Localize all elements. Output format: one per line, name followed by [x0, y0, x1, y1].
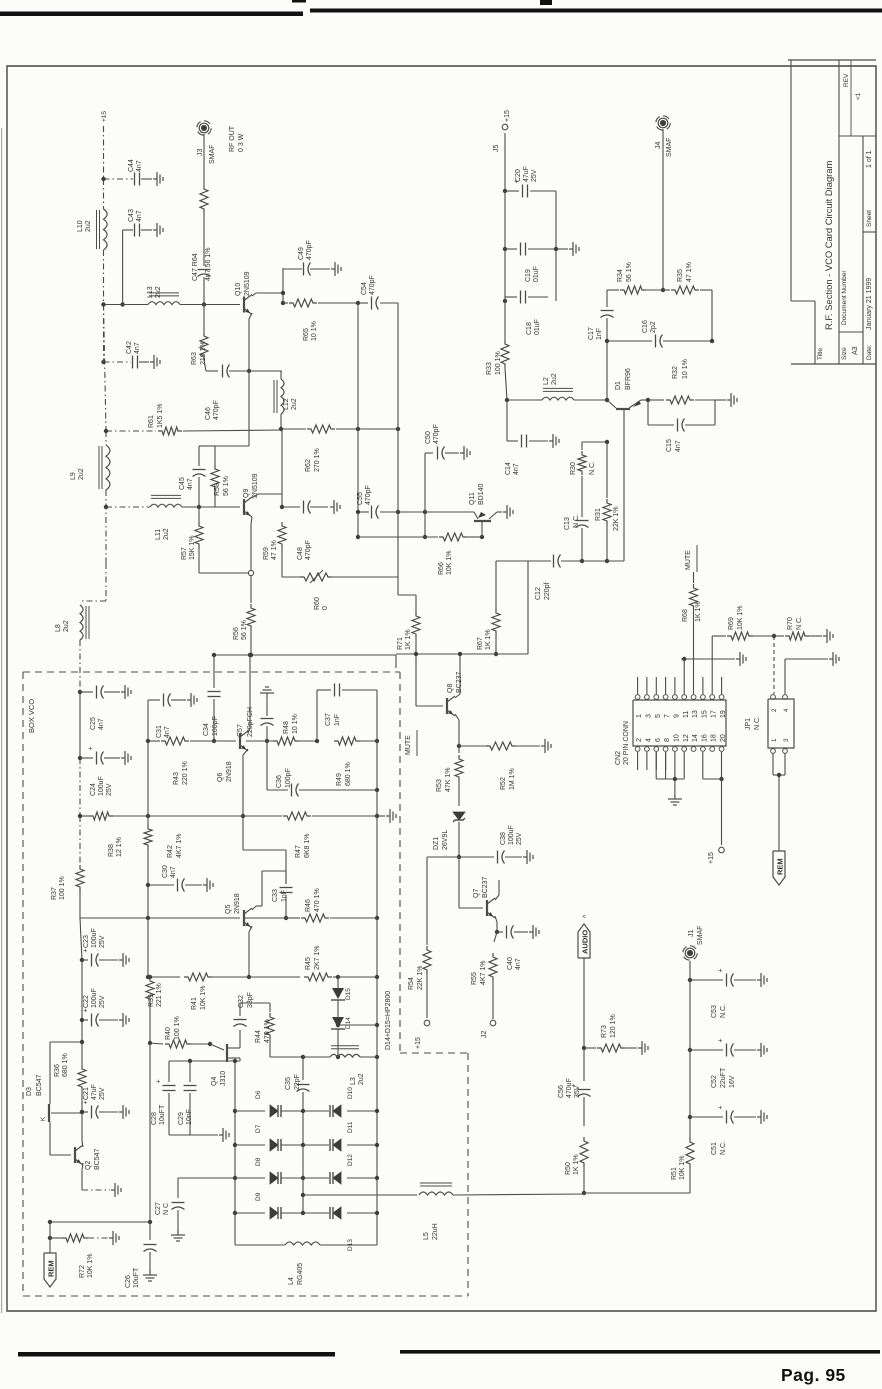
junction [375, 788, 379, 792]
svg-text:BFR96: BFR96 [625, 368, 632, 390]
net flag AUDIO [578, 924, 590, 958]
junction [284, 916, 288, 920]
junction [212, 739, 216, 743]
wire [489, 512, 497, 519]
wire [49, 1238, 51, 1253]
svg-text:1M 1%: 1M 1% [509, 768, 516, 790]
svg-text:A3: A3 [852, 346, 859, 355]
wire [104, 361, 132, 363]
wire [332, 576, 398, 578]
resistor R68 [690, 584, 698, 610]
varactor diode D7 [270, 1139, 278, 1151]
svg-text:4n7: 4n7 [515, 958, 522, 970]
svg-text:2: 2 [636, 738, 643, 742]
svg-text:D1: D1 [615, 381, 622, 390]
wire [504, 191, 506, 301]
resistor R34 [620, 286, 646, 294]
capacitor C14 [521, 435, 523, 448]
zener diode DZ1 [453, 812, 465, 820]
svg-text:6: 6 [655, 738, 662, 742]
wire [198, 548, 200, 573]
wire [81, 960, 83, 1020]
wire [772, 753, 774, 775]
wire [695, 399, 715, 401]
svg-text:4: 4 [783, 708, 790, 712]
wire [149, 1043, 151, 1222]
svg-text:REM: REM [776, 858, 785, 875]
ground [153, 229, 157, 231]
svg-text:C15: C15 [666, 439, 673, 452]
wire [712, 635, 726, 637]
wire [280, 371, 282, 379]
wire [689, 1168, 691, 1193]
svg-text:D15: D15 [345, 988, 352, 1000]
capacitor C28 [163, 1085, 176, 1087]
wire [467, 536, 482, 538]
svg-text:R39: R39 [148, 994, 155, 1007]
resistor R71 [412, 612, 420, 638]
svg-text:25V: 25V [99, 1087, 106, 1100]
wire [397, 577, 399, 595]
wire [79, 640, 81, 692]
varactor diode D8 [270, 1172, 278, 1184]
svg-text:Q9: Q9 [243, 489, 250, 498]
wire [50, 1041, 82, 1043]
wire [555, 191, 557, 301]
wire [317, 689, 331, 691]
svg-text:100pF: 100pF [212, 716, 219, 736]
wire [214, 654, 396, 656]
svg-text:2u2: 2u2 [85, 220, 92, 232]
resistor R39 [146, 977, 154, 1003]
svg-text:4n7: 4n7 [134, 342, 141, 354]
wire [734, 979, 756, 981]
wire [303, 1110, 329, 1112]
svg-text:L3: L3 [350, 1077, 357, 1085]
svg-text:R50: R50 [565, 1162, 572, 1175]
capacitor C42 [132, 356, 134, 369]
wire [310, 570, 323, 583]
wire [380, 302, 398, 304]
junction [375, 1176, 379, 1180]
pin [701, 695, 706, 700]
wire [690, 1049, 723, 1051]
capacitor C30 [177, 879, 179, 892]
svg-text:JP1: JP1 [745, 718, 752, 730]
wire [105, 563, 107, 601]
svg-text:C16: C16 [642, 320, 649, 333]
wire [458, 781, 460, 806]
junction [104, 429, 108, 433]
wire [380, 511, 398, 513]
wire [505, 368, 507, 400]
svg-text:C27: C27 [155, 1202, 162, 1215]
svg-text:R57: R57 [181, 547, 188, 560]
transistor D3 bar [48, 1104, 50, 1122]
ground [727, 399, 731, 401]
inductor L10 [104, 209, 108, 250]
svg-text:220 1%: 220 1% [182, 761, 189, 785]
svg-text:R59: R59 [263, 547, 270, 560]
svg-text:SMAF: SMAF [209, 145, 216, 164]
svg-text:C50: C50 [425, 431, 432, 444]
svg-text:4K7 1%: 4K7 1% [480, 960, 487, 985]
svg-text:2: 2 [771, 708, 778, 712]
wire [113, 815, 148, 817]
wire [357, 303, 359, 429]
svg-text:D11: D11 [347, 1121, 354, 1133]
ground [549, 440, 553, 442]
svg-text:L11: L11 [155, 529, 162, 540]
resistor R43 [161, 737, 189, 745]
svg-text:4: 4 [645, 738, 652, 742]
wire [147, 918, 149, 977]
svg-text:C38: C38 [500, 832, 507, 845]
wire [248, 371, 250, 446]
wire [213, 699, 215, 741]
svg-text:4n7: 4n7 [187, 478, 194, 490]
svg-text:R52: R52 [500, 777, 507, 790]
ground [674, 795, 676, 799]
wire [426, 857, 428, 945]
wire [283, 302, 288, 304]
wire [199, 506, 240, 508]
svg-text:C46: C46 [205, 407, 212, 420]
resistor R42 [144, 825, 152, 849]
wire [79, 891, 81, 918]
svg-text:D14: D14 [345, 1017, 352, 1029]
wire [103, 305, 105, 363]
wire [360, 1056, 377, 1058]
wire [50, 1221, 150, 1223]
wire [281, 1144, 303, 1146]
svg-text:0: 0 [322, 606, 329, 610]
wire [714, 400, 716, 425]
junction [301, 1055, 305, 1059]
svg-text:REV: REV [843, 73, 850, 87]
wire [584, 1192, 690, 1194]
junction [101, 302, 105, 306]
wire [303, 1194, 417, 1196]
wire [445, 452, 459, 454]
wire [333, 976, 338, 978]
varactor diode D10 [333, 1105, 341, 1117]
junction [646, 398, 650, 402]
terminal +15 [719, 847, 725, 853]
wire [99, 1019, 118, 1021]
junction [247, 369, 251, 373]
connector J4 SMAF [658, 118, 668, 128]
ground [736, 658, 740, 660]
transistor Q6 [239, 733, 241, 749]
svg-text:26V9L: 26V9L [442, 830, 449, 850]
wire [252, 494, 258, 498]
wire [581, 528, 583, 561]
wire [266, 741, 268, 790]
wire [281, 428, 306, 430]
junction [80, 1040, 84, 1044]
svg-text:210 1%: 210 1% [200, 341, 207, 365]
junction [301, 1176, 305, 1180]
junction [78, 756, 82, 760]
resistor R36 [78, 1065, 86, 1091]
wire [690, 1116, 723, 1118]
wire [79, 758, 81, 816]
transistor Q9 [243, 499, 245, 515]
junction [582, 1046, 586, 1050]
wire [458, 741, 460, 753]
wire [397, 303, 399, 512]
svg-text:C33: C33 [272, 889, 279, 902]
wire [104, 304, 149, 306]
capacitor C53 [726, 974, 728, 987]
wire [282, 576, 300, 578]
svg-text:R32: R32 [672, 366, 679, 379]
ground [119, 1111, 123, 1113]
resistor R61 [158, 427, 182, 435]
junction [146, 883, 150, 887]
ground [153, 178, 157, 180]
wire [785, 658, 828, 660]
wire [258, 493, 282, 495]
capacitor C51 [726, 1111, 728, 1124]
capacitor C54 [371, 297, 373, 310]
wire [376, 977, 378, 1057]
wire [104, 757, 120, 759]
wire [150, 1043, 163, 1044]
varactor diode D13 [333, 1207, 341, 1219]
ground [203, 884, 207, 886]
wire [674, 779, 676, 796]
junction [48, 1236, 52, 1240]
svg-text:L8: L8 [55, 624, 62, 632]
inductor L13 [148, 302, 180, 305]
svg-text:47uF: 47uF [523, 166, 530, 182]
ground [541, 745, 545, 747]
wire [655, 677, 657, 694]
svg-text:C36: C36 [276, 775, 283, 788]
wire [702, 677, 704, 694]
svg-text:+: + [718, 968, 725, 972]
wire [505, 190, 519, 192]
wire [198, 507, 200, 522]
wire [227, 1057, 240, 1059]
svg-text:N C: N C [163, 1203, 170, 1215]
svg-text:+: + [88, 746, 95, 750]
wire [377, 815, 385, 817]
svg-text:2u2: 2u2 [63, 620, 70, 632]
svg-text:R37: R37 [51, 887, 58, 900]
wire [312, 815, 377, 817]
svg-text:Document Number: Document Number [841, 270, 848, 325]
junction [356, 301, 360, 305]
svg-text:25V: 25V [99, 995, 106, 1008]
inductor L11 [150, 504, 182, 507]
svg-text:R73: R73 [601, 1025, 608, 1038]
wire [528, 296, 548, 298]
junction [301, 1143, 305, 1147]
svg-text:R71: R71 [397, 637, 404, 650]
svg-text:K: K [41, 1117, 47, 1121]
resistor R58 [211, 465, 219, 491]
wire [514, 931, 528, 933]
capacitor C26 [144, 1244, 157, 1246]
junction [208, 1042, 212, 1046]
svg-text:C22: C22 [83, 995, 90, 1008]
wire [249, 313, 252, 319]
svg-text:C40: C40 [507, 957, 514, 970]
wire [584, 1047, 596, 1049]
wire [648, 424, 674, 426]
junction [375, 916, 379, 920]
wire [49, 1222, 51, 1238]
ground [109, 1237, 113, 1239]
junction [48, 1220, 52, 1224]
wire [248, 319, 250, 371]
junction [80, 1110, 84, 1114]
svg-text:2u2: 2u2 [291, 398, 298, 410]
transistor Q10 [243, 297, 245, 313]
wire [169, 1134, 218, 1136]
capacitor C13 [576, 520, 589, 522]
wire [773, 774, 785, 776]
svg-text:15K 1%: 15K 1% [189, 535, 196, 560]
svg-text:10uFT: 10uFT [133, 1267, 140, 1288]
resistor R41 [184, 973, 212, 981]
wire [506, 400, 508, 441]
pin [710, 747, 715, 752]
resistor R51 [686, 1138, 694, 1168]
svg-text:12: 12 [683, 734, 690, 742]
wire [529, 440, 548, 442]
junction [688, 1115, 692, 1119]
svg-text:270 1%: 270 1% [314, 448, 321, 472]
wire [177, 1210, 179, 1232]
svg-text:25V: 25V [516, 832, 523, 845]
junction [202, 302, 206, 306]
svg-text:C55: C55 [357, 492, 364, 505]
wire [574, 399, 607, 401]
inductor L9 [106, 445, 110, 490]
svg-text:2u2: 2u2 [551, 373, 558, 385]
svg-text:25V: 25V [531, 169, 538, 182]
capacitor C37 [334, 684, 336, 697]
wire [721, 752, 723, 779]
svg-text:R70: R70 [787, 617, 794, 630]
svg-text:C49: C49 [298, 247, 305, 260]
wire [256, 292, 283, 294]
svg-text:+: + [156, 1079, 163, 1083]
svg-text:2N918: 2N918 [234, 893, 241, 914]
svg-text:L2: L2 [543, 377, 550, 385]
pin [654, 747, 659, 752]
wire [256, 905, 262, 907]
svg-text:+15: +15 [504, 110, 511, 122]
svg-text:D6: D6 [255, 1090, 262, 1099]
wire [507, 440, 518, 442]
svg-text:C54: C54 [361, 282, 368, 295]
svg-text:RG405: RG405 [297, 1263, 304, 1285]
resistor R67 [492, 609, 500, 635]
svg-text:1K 1%: 1K 1% [485, 629, 492, 650]
svg-text:25V: 25V [99, 935, 106, 948]
node [248, 570, 253, 575]
wire [122, 230, 124, 305]
wire [249, 655, 251, 728]
wire [262, 870, 286, 872]
junction [457, 855, 461, 859]
wire [310, 506, 328, 508]
wire [99, 959, 118, 961]
wire [583, 1097, 585, 1126]
wire [246, 740, 273, 742]
svg-text:17: 17 [711, 710, 718, 718]
wire [703, 778, 722, 780]
svg-text:2N918: 2N918 [226, 761, 233, 782]
pin [771, 749, 776, 754]
svg-text:1 of 1: 1 of 1 [866, 150, 873, 168]
resistor R47 [283, 812, 311, 820]
svg-text:+15: +15 [101, 111, 108, 122]
junction [148, 1220, 152, 1224]
svg-text:22pF: 22pF [294, 1074, 301, 1090]
ground [523, 856, 527, 858]
wire [416, 730, 418, 756]
wire [283, 268, 302, 270]
junction [241, 814, 245, 818]
wire [715, 399, 726, 401]
wire [342, 689, 377, 691]
svg-text:C34: C34 [203, 723, 210, 736]
svg-text:10K 1%: 10K 1% [737, 605, 744, 630]
wire [459, 654, 461, 694]
junction [101, 177, 105, 181]
svg-text:10K 1%: 10K 1% [200, 985, 207, 1010]
svg-text:D10: D10 [347, 1087, 354, 1099]
wire [530, 190, 556, 192]
svg-text:10 1%: 10 1% [311, 321, 318, 341]
resistor R60 [300, 573, 332, 581]
wire [494, 932, 497, 942]
capacitor C27 [172, 1202, 185, 1204]
wire [702, 752, 704, 779]
wire [496, 560, 551, 562]
svg-text:2K7 1%: 2K7 1% [314, 945, 321, 970]
wire [458, 822, 460, 857]
junction [356, 535, 360, 539]
wire [458, 857, 460, 908]
junction [146, 814, 150, 818]
junction [777, 773, 781, 777]
wire [606, 290, 608, 307]
wire [103, 250, 105, 305]
wire [244, 917, 286, 919]
wire [212, 976, 249, 978]
wire [474, 512, 478, 519]
ground [266, 693, 268, 697]
resistor R33 [501, 340, 509, 368]
junction [146, 739, 150, 743]
wire [239, 1058, 241, 1061]
svg-text:20 PIN CONN: 20 PIN CONN [623, 721, 630, 765]
wire [106, 430, 156, 432]
wire [203, 277, 205, 305]
wire [646, 752, 648, 770]
svg-text:R34: R34 [617, 269, 624, 282]
svg-text:C19: C19 [525, 269, 532, 282]
junction [375, 1023, 379, 1027]
wire [316, 690, 318, 741]
